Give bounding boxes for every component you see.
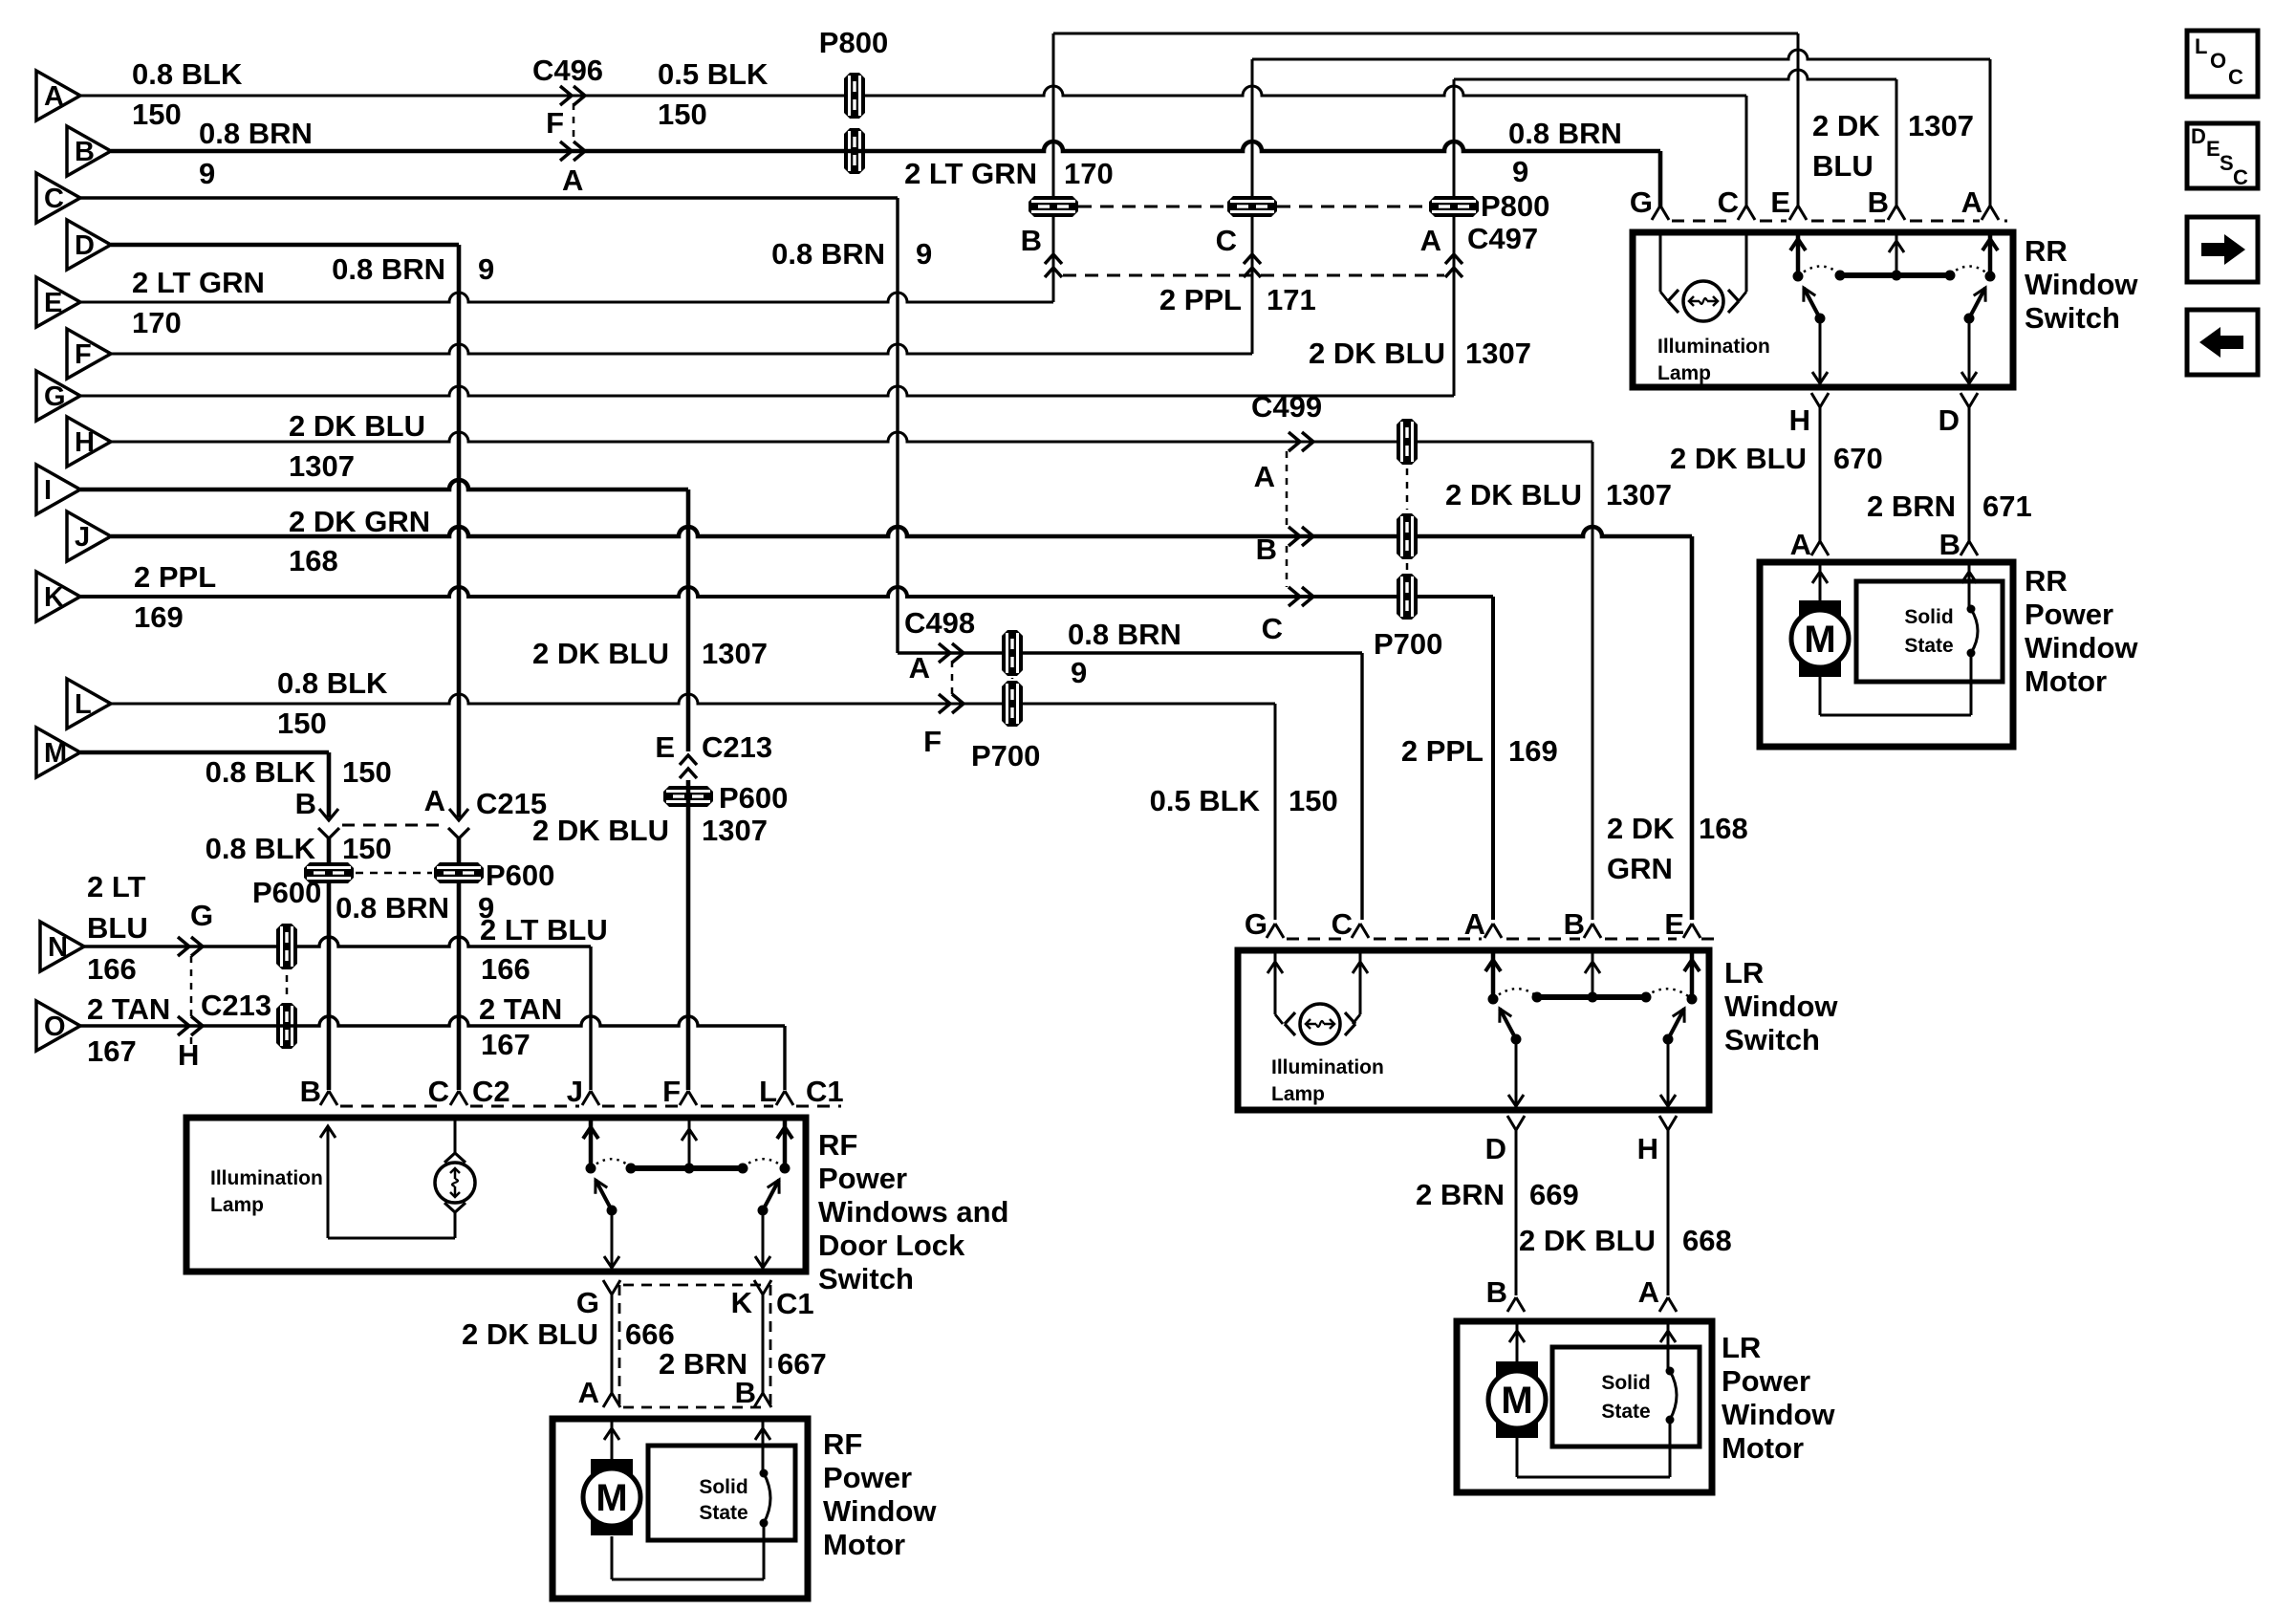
wire D xyxy=(111,243,459,248)
RR arm left wire down xyxy=(1812,318,1828,383)
connector C497 pin C xyxy=(1216,224,1261,277)
RR connector dashed line xyxy=(1672,220,2007,223)
wire D to motor 2 BRN 669 xyxy=(1515,1128,1518,1295)
grommet P800 on G riser xyxy=(1429,196,1479,217)
motor M LR xyxy=(1488,1361,1546,1438)
svg-text:C215: C215 xyxy=(476,787,547,820)
RF switch terminal F arrow xyxy=(682,1118,697,1168)
connector C213 pin E xyxy=(655,730,772,778)
connector triangle F xyxy=(67,329,111,379)
svg-text:2 PPL: 2 PPL xyxy=(1401,734,1484,768)
label 0.8 BRN below xyxy=(336,891,449,925)
label 166 xyxy=(87,952,137,986)
svg-text:9: 9 xyxy=(478,252,494,286)
svg-text:P600: P600 xyxy=(252,876,321,909)
svg-text:C497: C497 xyxy=(1467,222,1538,255)
RR arm right wire down xyxy=(1961,318,1977,383)
wire O 2 TAN 167 xyxy=(80,1016,785,1026)
label 0.8 BRN right xyxy=(1508,117,1622,150)
svg-text:150: 150 xyxy=(342,755,392,789)
wire I vertical xyxy=(686,490,691,751)
connector triangle E xyxy=(36,277,80,327)
RF connector dashed rect xyxy=(619,1285,770,1407)
svg-text:C: C xyxy=(2228,65,2243,89)
LR terminal A arrow xyxy=(1485,950,1501,999)
label 150 below xyxy=(342,832,392,865)
svg-text:669: 669 xyxy=(1529,1178,1579,1211)
LR contact dot A xyxy=(1488,994,1499,1005)
wire M xyxy=(80,751,329,755)
grommet P700 on wire L xyxy=(1002,681,1023,727)
terminal fork H xyxy=(1637,1116,1677,1165)
svg-text:B: B xyxy=(1564,907,1585,941)
svg-text:N: N xyxy=(48,932,68,963)
svg-text:C: C xyxy=(1216,224,1237,257)
svg-text:A: A xyxy=(1638,1275,1659,1309)
svg-text:C1: C1 xyxy=(806,1075,844,1108)
svg-text:A: A xyxy=(44,81,64,112)
wire C xyxy=(80,196,898,199)
svg-text:M: M xyxy=(1501,1380,1532,1422)
svg-text:C: C xyxy=(1262,612,1283,645)
connector triangle K xyxy=(36,572,80,621)
svg-text:2 DK BLU: 2 DK BLU xyxy=(1309,337,1445,370)
label 2 DK xyxy=(1812,109,1880,142)
wire B corner down to RR switch G xyxy=(1658,151,1663,208)
wire E vertical up xyxy=(1052,33,1055,302)
svg-text:Lamp: Lamp xyxy=(210,1194,264,1216)
connector C496 dashed xyxy=(573,103,575,143)
connector P700 dashed 2 xyxy=(1011,678,1014,679)
svg-text:Motor: Motor xyxy=(1722,1431,1804,1465)
LR motor bottom wire xyxy=(1517,1420,1670,1477)
grommet P800 on E riser xyxy=(1029,196,1078,217)
svg-text:Window: Window xyxy=(2025,631,2138,664)
label 0.8 BRN xyxy=(771,237,885,271)
LR switch name xyxy=(1724,956,1838,1056)
RR dashed arc right xyxy=(1950,266,1990,276)
svg-text:Window: Window xyxy=(1722,1398,1835,1431)
connector C213 dashed xyxy=(190,956,193,1047)
svg-text:A: A xyxy=(1254,460,1275,493)
RF solid state lead xyxy=(755,1419,770,1473)
label 1307 xyxy=(702,637,768,670)
top line 3 xyxy=(1454,70,1896,79)
connector triangle M xyxy=(36,728,80,777)
RR motor box xyxy=(1760,562,2013,747)
wire F xyxy=(111,344,1252,354)
wire down to RR switch B xyxy=(1895,79,1898,208)
LR motor lead xyxy=(1509,1321,1525,1363)
wire down to LR switch C xyxy=(1360,653,1363,920)
svg-text:P800: P800 xyxy=(819,26,888,59)
LR terminal E arrow xyxy=(1684,950,1700,999)
label BLU xyxy=(1812,149,1874,183)
label P700 xyxy=(971,739,1040,772)
svg-text:P700: P700 xyxy=(971,739,1040,772)
svg-text:2 DK BLU: 2 DK BLU xyxy=(289,409,425,443)
svg-text:A: A xyxy=(1790,528,1811,561)
connector C213 pin H xyxy=(178,1016,203,1072)
svg-text:Door Lock: Door Lock xyxy=(818,1229,965,1262)
connector triangle I xyxy=(36,465,80,514)
connector P600 dashed line xyxy=(356,872,432,875)
terminal fork K xyxy=(731,1280,814,1320)
svg-text:Solid: Solid xyxy=(1601,1372,1650,1394)
label 166 xyxy=(481,952,531,986)
svg-text:GRN: GRN xyxy=(1607,852,1673,885)
terminal fork B xyxy=(1564,907,1601,941)
connector C215 pin A xyxy=(424,784,548,838)
LR motor box xyxy=(1457,1321,1712,1492)
svg-text:9: 9 xyxy=(916,237,932,271)
connector C499 pin B xyxy=(1256,527,1313,566)
svg-text:666: 666 xyxy=(625,1317,675,1351)
terminal fork J xyxy=(567,1075,599,1108)
LR connector dashed line xyxy=(1287,938,1721,941)
RF contact bar xyxy=(626,1164,748,1174)
svg-text:D: D xyxy=(2191,124,2206,148)
RF switch terminal J arrow xyxy=(583,1118,598,1168)
wire B 0.8 BRN 9 xyxy=(111,141,1660,151)
wire H xyxy=(111,432,1592,442)
svg-text:170: 170 xyxy=(132,306,182,339)
label BLU xyxy=(87,911,148,945)
grommet P600 on wire O xyxy=(276,1003,297,1049)
label 0.5 BLK xyxy=(1150,784,1261,817)
terminal fork G xyxy=(1630,185,1669,220)
svg-text:Lamp: Lamp xyxy=(1657,362,1711,384)
terminal fork G xyxy=(576,1280,620,1319)
svg-text:O: O xyxy=(44,1012,66,1042)
label 9 xyxy=(916,237,932,271)
wire G to motor 2 DK BLU 666 xyxy=(611,1293,614,1394)
LR switch box xyxy=(1238,950,1709,1110)
svg-text:H: H xyxy=(75,427,95,458)
connector C215 dashed line xyxy=(342,824,445,827)
svg-text:A: A xyxy=(1420,224,1441,257)
grommet P600 on M riser xyxy=(304,862,354,883)
svg-text:D: D xyxy=(75,230,95,261)
label 150 xyxy=(132,98,182,131)
svg-text:2 TAN: 2 TAN xyxy=(87,992,170,1026)
svg-text:2 DK: 2 DK xyxy=(1812,109,1880,142)
svg-text:1307: 1307 xyxy=(1465,337,1531,370)
svg-text:G: G xyxy=(576,1286,599,1319)
svg-text:G: G xyxy=(190,899,213,932)
svg-text:2 PPL: 2 PPL xyxy=(134,560,216,594)
terminal fork A xyxy=(578,1376,620,1409)
terminal fork C xyxy=(428,1075,510,1108)
label Illumination Lamp xyxy=(1657,336,1770,384)
svg-text:Solid: Solid xyxy=(1904,606,1953,628)
wire down to LR switch E xyxy=(1690,536,1695,920)
wire M vertical lower xyxy=(327,838,332,1090)
label C498 xyxy=(904,606,975,640)
svg-text:150: 150 xyxy=(277,707,327,740)
svg-text:2 PPL: 2 PPL xyxy=(1159,283,1242,316)
svg-text:167: 167 xyxy=(481,1028,531,1061)
svg-text:0.8 BLK: 0.8 BLK xyxy=(206,755,316,789)
svg-text:K: K xyxy=(731,1286,753,1319)
connector triangle H xyxy=(67,417,111,467)
connector triangle N xyxy=(40,922,84,971)
svg-text:2 LT GRN: 2 LT GRN xyxy=(132,266,265,299)
label Solid State xyxy=(1904,606,1953,657)
label 9 xyxy=(199,157,215,190)
grommet P700 on wire K xyxy=(1397,574,1418,620)
terminal fork A xyxy=(1638,1275,1677,1312)
svg-text:S: S xyxy=(2220,151,2234,175)
grommet P700 on 0.8 BRN 9 xyxy=(1002,630,1023,676)
label 2 DK BLU xyxy=(289,409,425,443)
svg-text:1307: 1307 xyxy=(1908,109,1974,142)
label 670 xyxy=(1833,442,1883,475)
label 169 xyxy=(134,600,184,634)
svg-text:Window: Window xyxy=(2025,268,2138,301)
connector C497 pin B xyxy=(1021,224,1062,277)
LR solid state box xyxy=(1552,1347,1700,1447)
LR motor name xyxy=(1722,1331,1835,1465)
svg-text:L: L xyxy=(2195,34,2207,58)
svg-text:166: 166 xyxy=(481,952,531,986)
svg-text:Windows and: Windows and xyxy=(818,1195,1009,1229)
terminal fork C xyxy=(1718,185,1755,220)
label 2 DK BLU xyxy=(1670,442,1807,475)
label GRN xyxy=(1607,852,1673,885)
svg-text:B: B xyxy=(295,787,316,820)
RF contact dot L xyxy=(780,1164,791,1174)
LR contact bar xyxy=(1532,992,1652,1003)
label P800 xyxy=(819,26,888,59)
svg-text:E: E xyxy=(1664,907,1684,941)
svg-text:H: H xyxy=(1789,403,1810,437)
label 0.8 BLK xyxy=(206,755,316,789)
grommet P700 on wire J xyxy=(1397,513,1418,559)
wire N vertical down to RF J xyxy=(589,946,592,1090)
connector triangle C xyxy=(36,173,80,223)
svg-text:671: 671 xyxy=(1982,490,2032,523)
svg-text:C1: C1 xyxy=(776,1287,814,1320)
wire I xyxy=(80,480,688,490)
label 2 PPL xyxy=(134,560,216,594)
svg-text:G: G xyxy=(1630,185,1653,219)
label P700 xyxy=(1374,627,1442,661)
svg-text:150: 150 xyxy=(342,832,392,865)
svg-text:F: F xyxy=(75,339,92,370)
svg-text:2 DK: 2 DK xyxy=(1607,812,1675,845)
RF arm left wire down xyxy=(604,1210,619,1268)
svg-text:G: G xyxy=(44,381,66,412)
svg-text:D: D xyxy=(1485,1132,1506,1165)
svg-text:O: O xyxy=(2210,49,2226,73)
legend LOC box xyxy=(2187,31,2258,97)
wire down to LR switch G xyxy=(1274,704,1277,920)
RF motor name xyxy=(823,1427,937,1561)
svg-text:1307: 1307 xyxy=(702,637,768,670)
RF switch box xyxy=(186,1118,806,1272)
svg-text:State: State xyxy=(1601,1401,1650,1423)
svg-text:171: 171 xyxy=(1267,283,1316,316)
legend right arrow box xyxy=(2187,217,2258,282)
terminal fork F xyxy=(662,1075,697,1108)
RF solid state contact xyxy=(760,1469,771,1528)
label 2 BRN xyxy=(1416,1178,1505,1211)
RF illumination lamp xyxy=(435,1118,475,1212)
svg-text:Power: Power xyxy=(1722,1364,1810,1398)
LR switch arm right xyxy=(1663,1009,1685,1045)
top line 2 xyxy=(1252,50,1990,59)
svg-text:150: 150 xyxy=(132,98,182,131)
label 171 xyxy=(1267,283,1316,316)
label 167 right xyxy=(481,1028,531,1061)
svg-text:RF: RF xyxy=(818,1128,857,1162)
RF dashed arc left xyxy=(591,1159,631,1168)
LR dashed arc left xyxy=(1493,989,1537,999)
connector C213 pin G xyxy=(178,899,213,956)
label 150 xyxy=(658,98,707,131)
wire M vertical xyxy=(327,752,332,817)
LR lamp bends xyxy=(0,0,1,1)
svg-text:Power: Power xyxy=(2025,598,2113,631)
label 9 right xyxy=(1512,155,1528,188)
svg-text:E: E xyxy=(1770,185,1790,219)
label 2 LT BLU xyxy=(480,913,608,946)
wire J xyxy=(111,527,1692,536)
label 667 xyxy=(777,1347,827,1381)
svg-text:P700: P700 xyxy=(1374,627,1442,661)
legend DESC box xyxy=(2187,123,2258,189)
svg-text:168: 168 xyxy=(289,544,338,577)
svg-text:B: B xyxy=(300,1075,321,1108)
svg-text:2 DK BLU: 2 DK BLU xyxy=(532,814,669,847)
svg-text:C: C xyxy=(428,1075,449,1108)
label P600 xyxy=(252,876,321,909)
RR switch arm left xyxy=(1804,288,1826,324)
svg-text:M: M xyxy=(596,1477,627,1519)
grommet P600 on I riser xyxy=(663,786,713,807)
RR dashed arc left xyxy=(1798,266,1840,276)
connector C499 pin A xyxy=(1254,432,1313,493)
label 0.8 BRN xyxy=(1068,618,1181,651)
svg-text:668: 668 xyxy=(1682,1224,1732,1257)
label 2 DK BLU xyxy=(462,1317,598,1351)
svg-text:E: E xyxy=(2206,137,2220,161)
label 0.8 BRN xyxy=(332,252,445,286)
svg-text:667: 667 xyxy=(777,1347,827,1381)
svg-text:Illumination: Illumination xyxy=(210,1167,323,1189)
wire C vertical xyxy=(896,198,899,653)
RF contact dot J xyxy=(586,1164,596,1174)
svg-text:2 LT BLU: 2 LT BLU xyxy=(480,913,608,946)
LR illumination lamp xyxy=(1285,1004,1355,1044)
wire O vertical down to RF L xyxy=(783,1026,786,1090)
motor M RR xyxy=(1791,600,1849,677)
svg-text:2 DK GRN: 2 DK GRN xyxy=(289,505,430,538)
label 9 xyxy=(1071,656,1087,689)
label 2 DK BLU xyxy=(1309,337,1445,370)
svg-text:Lamp: Lamp xyxy=(1271,1083,1325,1105)
RF switch arm right xyxy=(758,1180,780,1216)
RR contact dot A xyxy=(1985,272,1996,282)
svg-text:I: I xyxy=(44,475,52,506)
svg-text:A: A xyxy=(424,784,445,817)
RR motor bottom wire xyxy=(1820,653,1971,715)
terminal fork L xyxy=(759,1075,844,1108)
svg-text:LR: LR xyxy=(1724,956,1764,990)
connector C215 pin B xyxy=(295,787,339,838)
svg-text:A: A xyxy=(578,1376,599,1409)
svg-text:2 TAN: 2 TAN xyxy=(479,992,562,1026)
connector triangle G xyxy=(36,371,80,421)
svg-text:B: B xyxy=(735,1376,756,1409)
label 1307 below xyxy=(702,814,768,847)
LR switch arm left xyxy=(1500,1009,1522,1045)
svg-text:RF: RF xyxy=(823,1427,862,1461)
label 1307 xyxy=(1908,109,1974,142)
label 1307 xyxy=(1606,478,1672,511)
RF motor bottom wire xyxy=(612,1523,764,1579)
label 671 xyxy=(1982,490,2032,523)
svg-text:0.8 BLK: 0.8 BLK xyxy=(206,832,316,865)
RR lamp leg joins xyxy=(1660,292,1746,301)
svg-text:0.8 BRN: 0.8 BRN xyxy=(771,237,885,271)
connector C496 pin F xyxy=(546,86,585,140)
RF solid state box xyxy=(648,1446,795,1540)
grommet P600 on wire N xyxy=(276,924,297,969)
terminal fork E xyxy=(1664,907,1700,941)
svg-text:L: L xyxy=(759,1075,777,1108)
label 2 DK xyxy=(1607,812,1675,845)
legend left arrow box xyxy=(2187,310,2258,375)
label 668 xyxy=(1682,1224,1732,1257)
svg-text:166: 166 xyxy=(87,952,137,986)
grommet P700 on wire H xyxy=(1397,419,1418,465)
terminal fork H xyxy=(1789,393,1829,437)
RF switch arm left xyxy=(596,1180,617,1216)
label 2 LT xyxy=(87,870,145,903)
svg-text:0.8 BRN: 0.8 BRN xyxy=(1068,618,1181,651)
svg-text:K: K xyxy=(44,582,64,613)
label 150 xyxy=(1289,784,1338,817)
wire D vertical 0.8 BRN 9 xyxy=(457,245,462,817)
top line 1 xyxy=(1053,33,1798,35)
connector C498 dashed xyxy=(951,661,954,696)
svg-text:M: M xyxy=(1804,619,1835,661)
wire E 2 LT GRN 170 xyxy=(80,293,1053,302)
svg-text:1307: 1307 xyxy=(289,449,355,483)
RR illumination lamp xyxy=(1668,281,1739,321)
svg-text:0.8 BRN: 0.8 BRN xyxy=(332,252,445,286)
wire down to RR switch A xyxy=(1989,59,1992,208)
wire F vertical up 2 PPL 171 xyxy=(1251,59,1254,354)
svg-text:1307: 1307 xyxy=(702,814,768,847)
connector C498 pin F xyxy=(923,694,964,758)
svg-text:C499: C499 xyxy=(1251,390,1322,424)
label 9 below xyxy=(478,891,494,925)
svg-text:E: E xyxy=(655,730,675,764)
svg-text:2 DK BLU: 2 DK BLU xyxy=(1445,478,1582,511)
RR motor name xyxy=(2025,564,2138,698)
RR solid state box xyxy=(1856,581,2003,682)
svg-text:Power: Power xyxy=(823,1461,912,1494)
svg-text:A: A xyxy=(909,651,930,685)
LR arm left wire down xyxy=(1508,1039,1524,1106)
wire C498 horizontal 0.8 BRN 9 xyxy=(898,651,1362,654)
svg-text:1307: 1307 xyxy=(1606,478,1672,511)
RF motor box xyxy=(552,1419,808,1599)
terminal fork C xyxy=(1332,907,1369,941)
